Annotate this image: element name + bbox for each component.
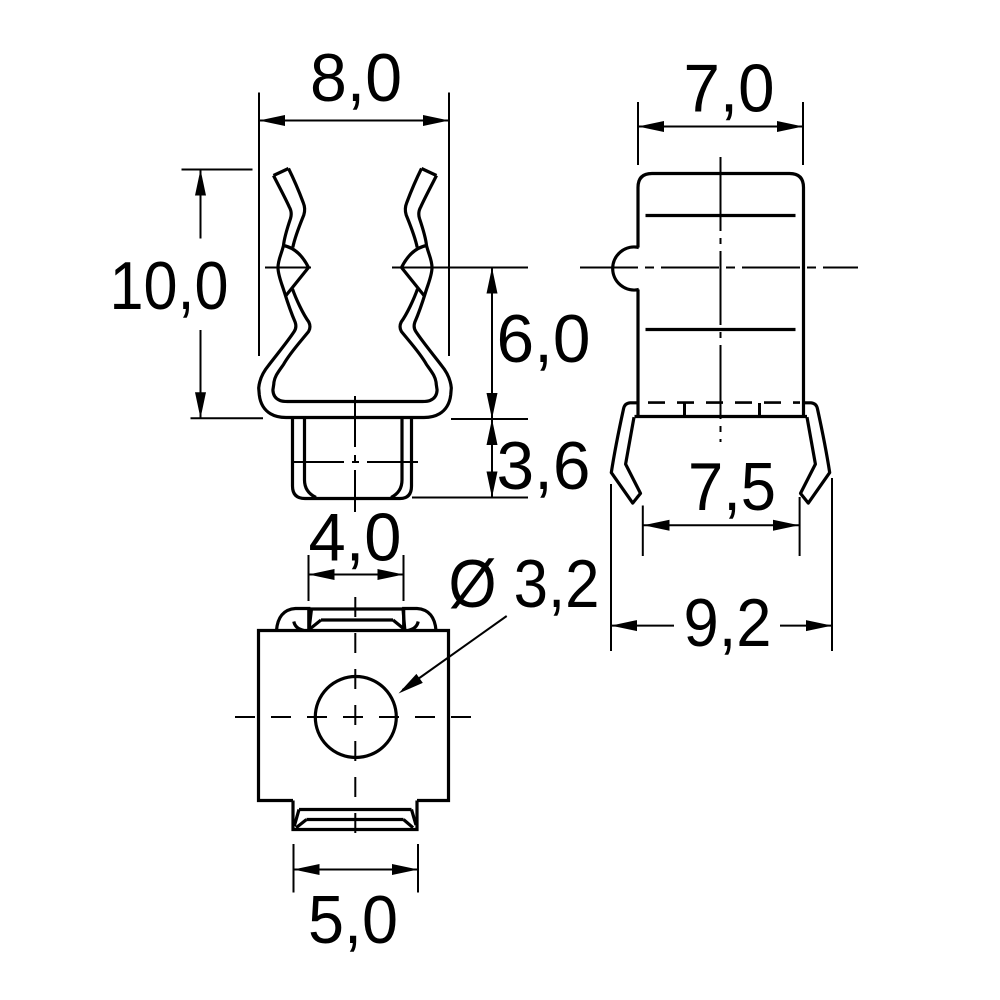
dim 8,0 right extension line (448, 93, 450, 357)
dim 9,2 left extension line (610, 484, 612, 651)
left small tick below hidden line (683, 403, 686, 416)
dim 10,0 up arrow (195, 170, 206, 196)
bottom tab outline (293, 801, 417, 830)
dim 5,0 right arrow (392, 864, 418, 875)
dim 3,6 line (491, 419, 493, 498)
body lower interior line (646, 328, 796, 331)
dim 4,0 line (309, 574, 404, 576)
bottom view vertical centreline (354, 597, 356, 840)
dim 9,2 right arrow (806, 620, 832, 631)
dim 7,5 left extension line (642, 506, 644, 557)
right beak lower line (402, 268, 425, 296)
left beak arc (284, 246, 309, 268)
dim 7,5 right arrow (773, 520, 799, 531)
dim 8,0 line (259, 120, 449, 122)
svg-text:4,0: 4,0 (309, 500, 402, 576)
bottom tab left upper connector (294, 810, 299, 827)
svg-text:6,0: 6,0 (497, 301, 591, 377)
clip left arm tip edge (274, 169, 289, 176)
right beak arc (402, 246, 427, 268)
left beak centreline (265, 267, 311, 269)
dim 7,5 left arrow (644, 520, 670, 531)
dim 7,0 right extension line (802, 102, 804, 165)
dim 10,0 top tick (182, 169, 253, 171)
dim 10,0 line lower (200, 330, 202, 418)
dim 8,0 left extension line (258, 93, 260, 357)
rivet bump on left edge (613, 247, 639, 290)
dim 4,0 left arrow (309, 569, 335, 580)
dim 3,6 down arrow (487, 472, 498, 498)
dim 10,0 line upper (200, 170, 202, 239)
top tab bevel outline (309, 609, 405, 630)
svg-text:10,0: 10,0 (110, 248, 229, 324)
clip right arm tip edge (422, 169, 437, 176)
clip inner profile right arm (405, 169, 421, 248)
hole diameter leader arrow (399, 674, 423, 694)
top tab right connector (393, 620, 404, 629)
dim 6,0 down arrow (487, 393, 498, 419)
dim 4,0 right extension line (403, 555, 405, 601)
svg-text:5,0: 5,0 (308, 882, 398, 958)
dim 7,0 left extension line (637, 102, 639, 165)
dim 7,0 left arrow (638, 121, 664, 132)
bottom tab inner line (307, 818, 404, 821)
svg-text:7,0: 7,0 (684, 51, 775, 127)
stem outline (293, 418, 412, 499)
dim 5,0 left arrow (294, 864, 320, 875)
svg-text:3,6: 3,6 (497, 428, 591, 504)
hole diameter leader line (403, 616, 507, 690)
body outline (side view) (638, 174, 804, 418)
dim 6,0 up arrow (487, 268, 498, 294)
right ear outer arc (404, 609, 436, 631)
dim 8,0 right arrow (423, 115, 449, 126)
left ear outer arc (277, 609, 309, 631)
dim 4,0 right arrow (378, 569, 404, 580)
dim 6,0 top tick (through right beak) (392, 267, 528, 269)
dim 3,6 mid tick (451, 418, 528, 420)
bottom view horizontal centreline (235, 716, 476, 718)
bottom tab right upper connector (412, 810, 417, 826)
clip inner profile left arm (289, 169, 305, 248)
bottom tab right lower connector (404, 820, 414, 828)
stem inner right edge (391, 418, 402, 498)
body upper interior line (646, 214, 796, 217)
stem horizontal centreline (293, 461, 419, 463)
dim 7,0 right arrow (777, 121, 803, 132)
left ear inner fillet arc (294, 622, 304, 631)
dim 5,0 line (294, 869, 419, 871)
stem vertical centreline (354, 396, 356, 512)
bottom tab top line (299, 808, 412, 811)
clip outer profile right (front view) (355, 176, 451, 418)
svg-text:8,0: 8,0 (310, 40, 402, 116)
clip inner profile right lower (355, 289, 437, 402)
right small tick below hidden line (758, 403, 761, 416)
clip inner profile left lower (273, 289, 355, 402)
dim 8,0 left arrow (259, 115, 285, 126)
dim 3,6 bottom tick (412, 497, 528, 499)
right ear inner fillet arc (409, 622, 419, 631)
dim 9,2 right extension line (831, 478, 833, 651)
dim 6,0 line (491, 268, 493, 420)
hidden edge dashed line (648, 401, 800, 404)
svg-text:Ø 3,2: Ø 3,2 (449, 546, 600, 622)
left beak lower line (286, 268, 309, 296)
dim 5,0 right extension line (417, 844, 419, 893)
svg-text:7,5: 7,5 (688, 449, 776, 525)
stem inner left edge (305, 418, 317, 498)
body bottom edge (635, 415, 808, 418)
dim 3,6 up arrow (487, 419, 498, 445)
dim 10,0 down arrow (195, 392, 206, 418)
dim 9,2 line left segment (611, 625, 674, 627)
dim 5,0 left extension line (293, 844, 295, 893)
dim 7,5 line (644, 524, 800, 526)
top tab left connector (310, 620, 321, 629)
dim 9,2 line right segment (780, 625, 832, 627)
left leg (611, 403, 640, 503)
dim 4,0 left extension line (308, 555, 310, 601)
svg-text:9,2: 9,2 (684, 585, 772, 661)
side view horizontal centreline (580, 267, 858, 269)
dim 7,0 line (638, 126, 803, 128)
bottom tab left lower connector (296, 820, 306, 828)
base square outline (bottom view) (259, 631, 449, 801)
dim 9,2 left arrow (611, 620, 637, 631)
side view vertical centreline (720, 157, 722, 442)
dim 10,0 bottom tick (191, 417, 264, 419)
dim 7,5 right extension line (799, 497, 801, 556)
centre hole circle (315, 677, 396, 758)
clip outer profile left (front view) (259, 176, 355, 418)
top tab inner line (321, 618, 393, 621)
right leg (801, 403, 830, 503)
